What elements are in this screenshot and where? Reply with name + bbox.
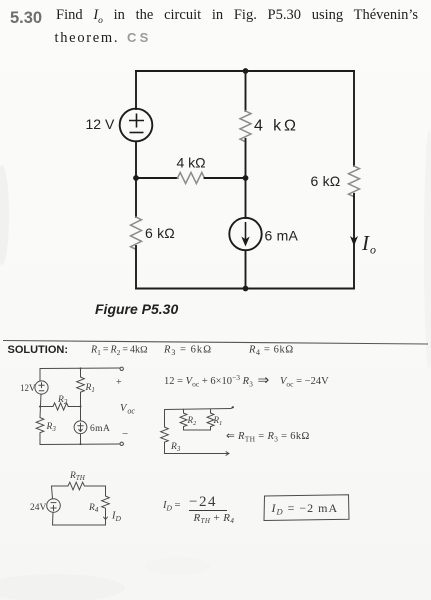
- svg-text:⇐ RTH = R3 = 6kΩ: ⇐ RTH = R3 = 6kΩ: [226, 431, 310, 444]
- hw1 source 12V circle: [35, 381, 48, 394]
- resistor 4k horizontal: [178, 173, 205, 184]
- hw2 bottom arrow: [226, 452, 229, 456]
- hw1 resistor R2 horizontal: [53, 403, 68, 410]
- hw2 wire left lower: [164, 442, 166, 453]
- hw3 wire left upper: [52, 486, 53, 499]
- wire mid vertical upper: [245, 71, 247, 111]
- hw2 terminal dot top right: [231, 407, 234, 409]
- hw3 resistor Rth horizontal: [68, 482, 84, 490]
- hw1 terminal top right: [120, 367, 123, 370]
- wire mid horizontal left: [136, 177, 178, 179]
- hw1 resistor R1: [77, 377, 85, 392]
- hw1 terminal bottom right: [120, 442, 123, 445]
- node top middle: [243, 68, 249, 74]
- plus symbol of 12V source: [129, 114, 246, 241]
- hw1 node bottom mid: [80, 443, 82, 445]
- hw1 source plus: [39, 383, 44, 388]
- node mid left: [133, 175, 139, 181]
- svg-text:6 mA: 6 mA: [265, 228, 299, 244]
- hw2 inner branch right: [210, 409, 212, 413]
- svg-text:R2: R2: [187, 415, 198, 427]
- svg-text:−: −: [122, 428, 128, 440]
- hw3 wire bottom: [53, 524, 106, 526]
- svg-text:Voc = −24V: Voc = −24V: [280, 376, 329, 389]
- wire bottom: [136, 288, 354, 290]
- svg-text:Io: Io: [361, 231, 376, 257]
- hw1 junction dots: [39, 367, 82, 445]
- hw3 source 24V circle: [47, 499, 61, 513]
- hw2 terminal dot: [232, 406, 234, 408]
- hw2 inner bottom connector: [184, 429, 211, 431]
- node mid center: [243, 175, 249, 181]
- svg-text:4 kΩ: 4 kΩ: [254, 118, 299, 135]
- svg-text:ID =: ID =: [162, 500, 181, 513]
- separator rule: [3, 341, 428, 345]
- hw2 resistor R2: [180, 413, 187, 427]
- svg-text:6 kΩ: 6 kΩ: [311, 173, 341, 189]
- svg-text:24V: 24V: [30, 503, 47, 513]
- hw3 resistor R4: [102, 496, 110, 508]
- hw1 node left mid: [39, 406, 41, 408]
- svg-text:R4: R4: [88, 503, 99, 514]
- wire left middle: [135, 142, 137, 218]
- svg-text:Voc: Voc: [120, 403, 135, 416]
- hw2 wire bottom: [165, 453, 230, 455]
- hw3 wire top left: [52, 485, 69, 487]
- resistor 4k mid: [240, 111, 251, 142]
- svg-text:RTH + R4: RTH + R4: [193, 512, 235, 525]
- svg-text:6mA: 6mA: [90, 424, 110, 434]
- hw3 wire right upper: [105, 486, 107, 496]
- hw1 wire bottom: [40, 443, 120, 446]
- svg-text:12V: 12V: [20, 383, 36, 393]
- current source I1 6mA: [229, 218, 261, 250]
- problem statement line 1: [56, 7, 418, 24]
- hw2 resistor R3: [161, 427, 169, 442]
- problem statement line 2: [55, 30, 120, 47]
- wire left upper: [135, 71, 137, 109]
- wire mid vertical lower: [245, 251, 247, 289]
- CS marker: [127, 30, 151, 45]
- svg-text:R3: R3: [170, 442, 181, 453]
- svg-text:+: +: [116, 377, 122, 388]
- hw1 wire top: [40, 367, 120, 370]
- hw2 resistor R1: [207, 413, 214, 427]
- current source arrow shaft: [245, 222, 247, 240]
- hw3 source plus: [51, 505, 56, 510]
- svg-text:RTH: RTH: [69, 471, 86, 482]
- hw1 wire left lower: [39, 433, 41, 445]
- svg-text:−24: −24: [189, 494, 217, 510]
- svg-text:ID: ID: [111, 511, 122, 524]
- wire left lower: [135, 246, 137, 289]
- hw2 inner branch left: [183, 409, 185, 413]
- svg-text:R3 = 6kΩ: R3 = 6kΩ: [163, 345, 212, 358]
- hw1 node center mid: [80, 406, 82, 408]
- current source arrowhead: [241, 237, 249, 247]
- svg-text:Figure P5.30: Figure P5.30: [95, 301, 178, 317]
- hw2 inner branch right lower: [210, 427, 212, 430]
- hw1 current source 6mA circle: [74, 421, 87, 434]
- resistor 6k right: [349, 166, 360, 197]
- wire right lower: [353, 194, 355, 289]
- svg-text:12 V: 12 V: [86, 116, 115, 132]
- wire right upper: [353, 71, 355, 166]
- svg-text:12 = Voc + 6×10−3 R3: 12 = Voc + 6×10−3 R3: [164, 373, 253, 389]
- answer box: [264, 495, 349, 521]
- hw2 wire top: [165, 409, 232, 410]
- eq2 fraction bar: [189, 510, 227, 512]
- hw1 wire left mid: [40, 394, 41, 417]
- voltage source V1 12V: [120, 109, 153, 142]
- hw1 wire mid branch middle: [80, 392, 82, 421]
- hw1 wire mid horizontal left: [40, 406, 53, 408]
- hw3 wire right lower with Io arrow: [104, 509, 108, 520]
- hw1 current source plus arrow: [78, 423, 83, 432]
- plus mark of 12V source: [129, 114, 144, 128]
- hw1 wire mid branch upper: [80, 368, 82, 377]
- wire top: [136, 70, 354, 72]
- svg-text:R1 = R2 = 4kΩ: R1 = R2 = 4kΩ: [90, 345, 148, 358]
- svg-text:⇒: ⇒: [258, 374, 270, 389]
- svg-text:R3: R3: [46, 422, 57, 433]
- minus symbol of 12V source: [130, 132, 144, 134]
- Io arrowhead on right wire: [350, 236, 358, 246]
- node bottom middle: [243, 286, 249, 292]
- svg-text:ID = −2 mA: ID = −2 mA: [271, 501, 339, 517]
- hw1 node top mid: [80, 367, 82, 369]
- resistor 6k left: [131, 217, 142, 249]
- svg-text:R1: R1: [85, 383, 95, 394]
- problem number 5.30: [10, 9, 42, 28]
- svg-text:4 kΩ: 4 kΩ: [177, 155, 206, 171]
- hw3 wire left lower: [52, 512, 55, 525]
- hw3 wire right to bottom: [105, 520, 107, 526]
- svg-text:R4 = 6kΩ: R4 = 6kΩ: [248, 345, 294, 358]
- hw1 wire mid horizontal right: [68, 406, 80, 408]
- svg-text:R2: R2: [57, 395, 68, 406]
- hw3 wire top right: [84, 485, 105, 487]
- hw1 source minus: [39, 390, 44, 392]
- hw2 inner branch left lower: [183, 427, 185, 430]
- hw1 resistor R3: [36, 418, 44, 433]
- wire mid vertical middle: [245, 139, 247, 218]
- wire mid horizontal right: [205, 177, 246, 179]
- hw1 wire left upper: [39, 369, 41, 382]
- hw2 wire left upper: [164, 410, 166, 428]
- hw1 wire mid branch lower: [80, 434, 82, 445]
- svg-text:SOLUTION:: SOLUTION:: [8, 344, 69, 356]
- hw3 source minus: [51, 502, 56, 504]
- svg-text:6 kΩ: 6 kΩ: [145, 225, 175, 241]
